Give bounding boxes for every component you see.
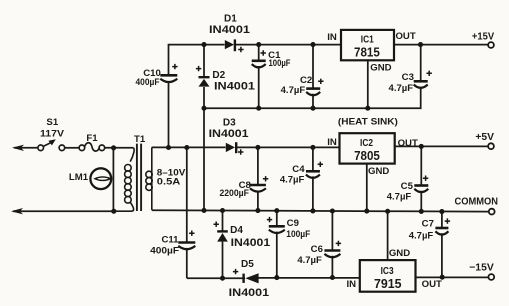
node C6 top [330,208,335,213]
node C4 bottom [310,208,315,213]
svg-text:T1: T1 [134,134,146,145]
node C1 top [256,42,261,47]
lamp LM1 [90,168,111,189]
op-amp IC3 box 7915 [347,248,443,292]
wire: C1 branch [258,45,260,109]
svg-text:C6: C6 [311,244,323,255]
switch S1 [38,142,65,151]
capacitor C8 [219,176,268,198]
svg-text:4.7µF: 4.7µF [387,192,412,202]
core [137,144,141,211]
node C5 top [419,144,424,149]
svg-text:7915: 7915 [374,277,402,291]
svg-text:IN: IN [327,32,337,43]
node C2 bottom [310,106,315,111]
fuse F1 [79,143,105,151]
wires layer [13,45,489,279]
svg-text:400µF: 400µF [150,246,179,256]
node D4 top [220,208,225,213]
svg-text:(HEAT SINK): (HEAT SINK) [338,115,398,126]
svg-text:4.7µF: 4.7µF [280,175,305,185]
capacitor C5 [387,176,429,202]
capacitor C2 [281,75,324,95]
diode D3 [209,117,249,154]
svg-text:IN4001: IN4001 [229,287,270,299]
svg-text:COMMON: COMMON [455,197,499,208]
secondary winding [151,147,153,210]
op-amp IC2 box 7805 [327,115,418,177]
wire: C4 branch [312,147,314,211]
svg-text:GND: GND [368,166,389,177]
diode D1 [209,14,250,53]
wire: C2 branch [312,45,314,109]
node C4 top [310,145,315,150]
capacitor C6 [297,241,341,265]
node AC bottom junction [111,209,116,214]
capacitor C1 [252,50,291,68]
svg-text:D5: D5 [241,259,254,270]
svg-text:+5V: +5V [475,132,494,143]
node C7 top [439,209,444,214]
wire: S1 to F1 [65,147,80,149]
node IC2 GND rail [364,209,369,214]
svg-text:S1: S1 [46,117,58,128]
terminal -15V [469,263,494,280]
svg-text:4.7µF: 4.7µF [281,85,306,95]
svg-text:GND: GND [370,62,391,73]
svg-text:400µF: 400µF [136,77,160,87]
transformer T1 [114,144,152,212]
capacitor C11 [150,231,195,256]
svg-text:100µF: 100µF [286,229,310,239]
wire: C7 branch [441,212,443,278]
svg-text:2200µF: 2200µF [219,188,249,198]
svg-text:IN4001: IN4001 [209,24,250,36]
node AC top junction [111,145,116,150]
AC input arrow top [12,145,24,151]
wire: AC top lead [14,147,38,149]
wire: AC bottom lead [13,210,114,212]
diode D4 [214,222,271,249]
capacitor C10 [136,64,178,87]
wire: IC1 OUT to +15V [394,44,488,46]
wire: F1 to junction [105,147,134,149]
svg-text:LM1: LM1 [69,172,89,183]
svg-text:IN4001: IN4001 [231,237,271,249]
svg-text:0.5A: 0.5A [157,177,181,187]
capacitor C9 [267,217,311,239]
node C7 bottom [440,275,445,280]
svg-text:D4: D4 [230,225,243,236]
svg-text:−15V: −15V [469,263,494,274]
node C11 top [184,145,189,150]
wire: C11 branch [186,148,188,279]
wire: IC3 GND lead [387,211,389,260]
svg-text:C5: C5 [401,181,414,192]
wire: COMMON rail [152,210,489,211]
node D4 bottom [220,276,225,281]
diode D5 [229,259,270,299]
node D2 ground [201,208,206,213]
svg-text:7815: 7815 [354,46,380,60]
node C1 bottom [256,106,261,111]
svg-text:7805: 7805 [354,149,380,163]
wire: IC2 OUT to +5V [395,145,489,147]
svg-text:GND: GND [389,248,410,259]
terminal +15V [472,32,494,48]
node D2 top [201,42,206,47]
wire: C5 branch [420,146,422,211]
AC input arrow bottom [11,208,23,214]
svg-text:100µF: 100µF [269,58,291,68]
wire: secondary top rail to IC2 IN [152,146,340,148]
svg-text:OUT: OUT [398,138,418,149]
wire: D4 branch [222,211,224,278]
node C9 bottom [274,275,279,280]
wire: C9 branch [276,211,278,278]
svg-text:4.7µF: 4.7µF [389,83,414,93]
primary winding [130,148,134,162]
op-amp IC1 box 7815 [327,30,416,73]
wire: C8 branch [257,147,259,211]
svg-text:+15V: +15V [472,32,494,43]
svg-text:C7: C7 [422,219,434,230]
svg-text:OUT: OUT [395,31,415,42]
svg-text:IN4001: IN4001 [214,80,255,92]
svg-text:F1: F1 [86,133,98,144]
node junction vertical AC [112,148,114,211]
wire: IC1 GND rail [204,45,421,109]
svg-text:IC2: IC2 [360,138,373,149]
wire: D2 branch vertical [203,45,205,211]
node IC1 GND rail [365,106,370,111]
svg-text:IN: IN [347,279,357,290]
svg-text:C4: C4 [292,164,305,175]
node C6 bottom [330,275,335,280]
svg-text:OUT: OUT [422,279,442,290]
capacitor C3 [389,71,432,93]
terminal COMMON [455,197,499,215]
svg-text:IN4001: IN4001 [209,128,249,140]
wire: top rail C10 corner through D1 to IC1 [169,45,342,148]
svg-text:C11: C11 [161,235,179,246]
svg-text:4.7µF: 4.7µF [409,231,434,241]
node C8 bottom [255,208,260,213]
terminal +5V [475,132,494,149]
capacitor C4 [280,162,323,185]
svg-text:IC1: IC1 [361,34,374,45]
node C8 top [255,145,260,150]
capacitor C7 [409,218,450,240]
svg-text:117V: 117V [40,129,65,140]
node C10 bottom [166,145,171,150]
wire: IC2 GND lead [366,164,368,211]
svg-text:C9: C9 [287,218,299,229]
svg-text:D3: D3 [223,117,236,128]
svg-text:IN: IN [327,137,337,148]
wire: IC1 GND lead [367,60,369,108]
diode D2 [196,66,255,93]
node D2 bottom [201,106,206,111]
node IC3 GND rail [385,209,390,214]
wire: IC3 OUT to -15V [416,276,489,278]
svg-text:C3: C3 [402,72,414,83]
svg-text:4.7µF: 4.7µF [297,255,322,265]
svg-text:IC3: IC3 [381,266,394,277]
node C5 bottom [419,209,424,214]
wire: bottom rail C11 corner to IC3 IN [187,277,360,279]
node C3 top [418,42,423,47]
node C2 top [310,42,315,47]
wire: C6 branch [331,211,333,277]
node C9 top [274,208,279,213]
